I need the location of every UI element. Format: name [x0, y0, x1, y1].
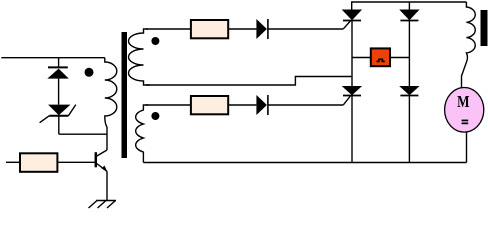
- wire: base resistor input stub: [6, 161, 20, 163]
- wire: gate circuit 2 from secondary 2 to resistor: [146, 104, 191, 106]
- wire: VS2 cathode to bottom rail: [351, 96, 353, 163]
- wire: secondary 1 return to bridge AC node: [146, 77, 352, 86]
- wire: VD5 to gate of VS1: [268, 28, 344, 30]
- thyristor VS2 (bottom-left SCR): [342, 86, 362, 105]
- wire: motor to bottom rail: [466, 132, 468, 163]
- diode VD3 (top-right): [399, 10, 419, 21]
- wire: R2 to VD6: [228, 104, 256, 106]
- transformer T1 core: [122, 32, 128, 158]
- wire: left supply line to primary: [1, 57, 105, 59]
- wire: VD4 cathode to bottom rail: [408, 96, 410, 163]
- transformer T1 secondary 2 winding: [136, 105, 148, 163]
- motor label =: [462, 120, 469, 125]
- wire: left bridge column (VS1 cathode to VS2 anode): [351, 21, 353, 87]
- AC source G1 (red box with ~): [371, 48, 390, 66]
- transistor VT1 (NPN): [96, 150, 108, 172]
- resistor R3 (base resistor): [20, 153, 57, 172]
- resistor R2: [191, 96, 228, 114]
- wire: collector to primary bottom junction: [106, 134, 108, 150]
- wire: source box to right AC node: [390, 57, 409, 59]
- wire: gate circuit 1 from secondary 1 to resistor: [146, 28, 191, 30]
- wire: R3 to transistor base: [57, 161, 94, 163]
- AC source tilde symbol: [377, 59, 385, 61]
- transformer T1 primary winding: [105, 58, 117, 135]
- polarity dot secondary 1: [151, 37, 159, 45]
- polarity dot secondary 2: [151, 112, 159, 120]
- choke L1 core: [481, 10, 488, 46]
- diode VD5 (gate 1 diode): [256, 19, 268, 39]
- diode VD1 (pointing up): [47, 58, 69, 105]
- wire: R1 to VD5: [228, 28, 256, 30]
- svg-text:M: M: [457, 92, 470, 111]
- wire: emitter to ground: [106, 171, 108, 200]
- transformer T1 secondary 1 winding: [129, 29, 150, 85]
- wire: VD6 to gate of VS2: [268, 104, 344, 106]
- resistor R1: [191, 20, 228, 38]
- wire: bottom rail: [143, 162, 466, 164]
- wire: bottom of primary branch: [59, 133, 107, 135]
- diode VD6 (gate 2 diode): [256, 95, 268, 115]
- wire: AC node to source box: [352, 57, 371, 59]
- zener/TVS diode VD2 (pointing down, bent bar): [40, 105, 76, 135]
- wire: stub to VD3: [408, 2, 410, 10]
- wire: positive top rail: [352, 2, 467, 10]
- ground: [89, 201, 117, 209]
- motor M1: [445, 88, 484, 133]
- smoothing choke L1: [462, 2, 476, 88]
- wire: right bridge column (VD3 cathode to VD4 anode): [408, 21, 410, 87]
- thyristor VS1 (top-left SCR): [342, 10, 362, 29]
- diode VD4 (bottom-right): [399, 86, 419, 96]
- polarity dot primary: [85, 68, 94, 77]
